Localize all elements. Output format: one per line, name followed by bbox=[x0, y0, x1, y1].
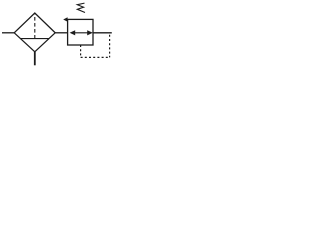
regulator relief vent triangle bbox=[63, 17, 67, 22]
filter condensate level line bbox=[21, 38, 49, 40]
regulator body bbox=[68, 19, 93, 45]
regulator flow arrowhead right bbox=[87, 30, 93, 35]
regulator adjustment spring bbox=[77, 3, 85, 12]
pilot line down from regulator bottom bbox=[80, 45, 82, 57]
pilot line bottom horizontal bbox=[81, 56, 110, 58]
regulator flow arrow line bbox=[72, 32, 91, 34]
regulator flow arrowhead left bbox=[70, 30, 76, 35]
filter drain line bbox=[34, 52, 36, 66]
filter element dashed line bbox=[34, 14, 36, 38]
wire inlet bbox=[2, 32, 15, 34]
filter body diamond bbox=[14, 13, 55, 52]
wire outlet bbox=[93, 32, 112, 34]
pilot line up to outlet bbox=[109, 35, 111, 58]
wire filter to regulator bbox=[55, 32, 67, 34]
